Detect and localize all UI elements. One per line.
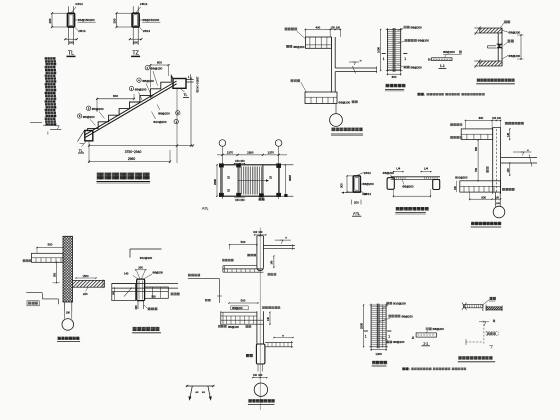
stair plan - right dim 2960 <box>285 164 292 197</box>
retaining wall - right label (CJK) <box>502 188 505 191</box>
expansion joint - right slab bar dark <box>486 306 502 312</box>
section 1-1 lower - label <box>426 327 445 333</box>
stair plan - axis bubble right <box>275 140 282 199</box>
platform beam section - bottom width dim arrow 200 <box>341 192 367 196</box>
tall wall M - right vdim 140 upper <box>272 255 275 268</box>
retaining wall - wall lines <box>493 128 501 194</box>
stair section - bottom dim 3750-2940 <box>88 89 194 164</box>
beam section TZ <box>113 2 161 57</box>
stair plan - bottom center label <box>259 198 262 201</box>
svg-text:2Φ14: 2Φ14 <box>78 29 86 33</box>
section 1-1 lower - caption <box>422 342 430 346</box>
platform beam elevation - L/4 dims <box>393 167 432 173</box>
svg-text:200: 200 <box>138 265 143 269</box>
platform beam section - left dim 300 <box>340 175 354 193</box>
svg-text:60°: 60° <box>196 392 199 394</box>
retaining wall - rotated label (CJK vertical) <box>486 167 489 173</box>
storage wall K - floor step lines <box>26 293 58 305</box>
bracket detail - caption (CJK) <box>331 128 363 136</box>
svg-text:200: 200 <box>48 18 52 23</box>
platform beam elevation - bottom rebar label phi8@200 <box>402 179 414 188</box>
lower mesh N - label top (CJK + phi10@200) <box>382 302 407 309</box>
column footing L - column <box>137 279 145 301</box>
svg-text:3750~2940: 3750~2940 <box>125 150 142 154</box>
storage wall K - right slab hatched <box>73 279 105 288</box>
retaining wall - detail bubble <box>493 206 505 218</box>
tall wall M - lower wall <box>257 311 264 344</box>
svg-text:700: 700 <box>475 167 478 172</box>
column footing L - caption (CJK) <box>132 327 161 333</box>
svg-text:100: 100 <box>253 374 258 377</box>
svg-text:Φ10@200: Φ10@200 <box>393 302 406 306</box>
platform beam elevation - beam lines <box>391 177 440 180</box>
svg-text:2960: 2960 <box>213 179 217 185</box>
tall wall M - dark label left (CJK) <box>246 354 249 357</box>
svg-text:Φ14: Φ14 <box>142 2 148 6</box>
retaining wall - bottom footing <box>460 181 501 192</box>
platform beam - title (CJK) <box>395 207 428 214</box>
stair section - bottom dim 2960 <box>88 150 171 163</box>
svg-text:500: 500 <box>241 240 246 244</box>
bracket detail - top dim 400/100/100 <box>305 26 341 37</box>
tall wall M - upper right slab <box>263 244 295 250</box>
tall wall M - right label (CJK) <box>268 273 271 276</box>
tall wall M - small label left of wall (CJK) <box>247 254 250 257</box>
stair plan - top dim line 1370 2360 1370 <box>217 151 287 156</box>
expansion joint - left slab bar <box>464 305 483 308</box>
svg-text:600: 600 <box>392 75 397 79</box>
retaining wall - right dims 140 <box>507 128 511 176</box>
lower mesh N - left dim 2500 <box>360 304 365 347</box>
svg-text:500: 500 <box>475 146 478 151</box>
tall wall M - mid step label (CJK) <box>188 274 191 277</box>
stair section - rebar callout phi8@200 left 5 <box>86 106 104 118</box>
expansion joint - joint step <box>483 305 486 311</box>
svg-text:2960: 2960 <box>288 175 292 181</box>
retaining wall - slab level mark <box>513 150 532 155</box>
svg-text:Φ8@200: Φ8@200 <box>508 31 520 35</box>
svg-text:2960: 2960 <box>128 157 136 161</box>
bracket detail - detail bubble <box>330 114 343 127</box>
svg-text:2Φ14: 2Φ14 <box>143 29 151 33</box>
svg-text:Φ8@200: Φ8@200 <box>228 325 239 329</box>
svg-text:1370: 1370 <box>268 151 275 155</box>
hanging rebar - left leg with arrow <box>188 386 192 401</box>
svg-text:500: 500 <box>48 243 53 247</box>
svg-text:100: 100 <box>253 231 258 234</box>
stair section - rebar callout 4 phi8@200 mid <box>129 86 146 100</box>
storage wall K - detail bubble <box>62 319 74 331</box>
svg-text:Φ6@200: Φ6@200 <box>362 182 374 186</box>
svg-text:Φ8@200: Φ8@200 <box>293 45 305 49</box>
expansion joint - dashed centerline <box>483 321 485 345</box>
svg-text:200: 200 <box>135 305 138 310</box>
retaining wall - top dim 600/100/100 <box>465 116 502 129</box>
lower mesh N - section mark 1 left <box>364 331 368 338</box>
tall wall M - boxed label phi8@200 <box>231 306 248 310</box>
tall wall M - ledge label (CJK) <box>222 259 225 262</box>
tall wall M - second ledge <box>221 311 264 325</box>
svg-text:Φ8@200: Φ8@200 <box>232 306 243 310</box>
tall wall M - top dim 100/100 <box>253 231 266 236</box>
svg-text:1: 1 <box>365 334 367 338</box>
svg-text:200: 200 <box>69 41 74 45</box>
hanging rebar - right leg with arrow <box>208 386 212 401</box>
column footing L - left block with break <box>112 284 136 301</box>
svg-text:Φ8@200: Φ8@200 <box>135 87 147 91</box>
connection detail - right dim bracket <box>517 34 524 59</box>
expansion joint - level triangle <box>479 322 489 326</box>
column footing L - top bent bar <box>130 249 162 258</box>
svg-text:600: 600 <box>479 116 484 120</box>
svg-text:Φ8@200: Φ8@200 <box>92 107 104 111</box>
svg-text:60°: 60° <box>202 392 205 394</box>
tall wall M - second ledge label (CJK + phi8@200) <box>218 325 251 329</box>
svg-text:1: 1 <box>383 57 385 61</box>
lower mesh N - caption (CJK) <box>372 361 387 366</box>
platform beam elevation - right support column <box>433 180 440 190</box>
svg-text:Φ6@150/200: Φ6@150/200 <box>142 18 159 22</box>
retaining wall - waterproof label (CJK) <box>505 122 508 125</box>
svg-text:100: 100 <box>258 231 263 234</box>
storage wall K - top dim 500 <box>36 243 63 254</box>
stair plan - treads <box>240 167 261 195</box>
bracket detail - slab level mark <box>349 60 362 65</box>
tall wall M - upper level mark <box>275 237 291 243</box>
beam section TL <box>48 2 96 57</box>
tall wall M - lower slab dim <box>273 336 293 339</box>
svg-text:600: 600 <box>481 195 486 199</box>
svg-text:Φ8@200: Φ8@200 <box>383 171 395 175</box>
column footing L - bottom leader label (CJK) <box>144 305 157 310</box>
lower mesh N - label mid (CJK + phi8@200) <box>380 314 414 321</box>
platform beam elevation - top rebar label phi8@200 <box>383 171 395 177</box>
bottom note line (CJK) <box>402 367 466 371</box>
connection detail - label coping (CJK) <box>501 20 511 27</box>
footing mesh - label bottom phi8@200 (CJK lead) <box>398 65 423 70</box>
stair plan - axis bubble left <box>219 140 226 199</box>
platform beam section P.TL <box>353 171 374 196</box>
svg-text:Φ6@200: Φ6@200 <box>338 100 350 104</box>
platform beam elevation - bottom dim line <box>393 190 431 198</box>
column footing L - right block <box>145 287 169 299</box>
stair section - top TL label <box>180 88 189 97</box>
storage wall K - caption (CJK) <box>57 337 80 342</box>
svg-text:Φ8@200: Φ8@200 <box>418 39 430 43</box>
svg-text:TL: TL <box>184 93 188 97</box>
column footing L - bottom stem and dim 200 <box>135 301 143 310</box>
connection detail - caption (CJK) <box>476 79 515 84</box>
tall wall M - bottom stem dim <box>252 364 267 378</box>
svg-text:1-1: 1-1 <box>440 64 445 68</box>
svg-text:140: 140 <box>507 132 510 137</box>
svg-text:1: 1 <box>388 334 390 338</box>
stair section - right vertical dim 1830-1415 <box>190 77 200 147</box>
svg-text:2Φ14: 2Φ14 <box>364 171 371 175</box>
footing mesh elevation - horizontal bars <box>387 31 400 69</box>
connection detail - wall lines <box>498 28 502 66</box>
column footing L - dim 200 <box>135 265 146 270</box>
retaining wall - left dim 100 <box>455 181 457 192</box>
svg-text:1-1: 1-1 <box>423 342 428 346</box>
expansion joint - small mark <box>489 345 492 348</box>
stair section - top dim 600 <box>149 60 169 87</box>
tall wall M - caption (CJK) <box>248 399 275 404</box>
svg-text:Φ8@200: Φ8@200 <box>410 65 422 69</box>
tall wall M - mid step polyline <box>188 279 222 303</box>
svg-text:Φ8@200: Φ8@200 <box>401 314 413 318</box>
svg-text:200: 200 <box>362 192 367 196</box>
column footing L - right label (CJK) <box>171 293 174 296</box>
lower mesh N - vertical bars <box>377 304 383 349</box>
expansion joint - dashed box label (CJK) <box>486 331 498 335</box>
footing mesh - caption (CJK) <box>385 84 405 91</box>
storage wall K - boxed label (CJK) <box>27 301 39 306</box>
platform beam elevation - left support column <box>387 178 394 190</box>
svg-text:Φ8@200: Φ8@200 <box>508 54 520 58</box>
footing mesh elevation - left dim 1000 <box>377 29 382 71</box>
stair plan - left dim 2960 <box>213 164 218 197</box>
column footing L - leaders to column top <box>133 271 152 280</box>
stair section - steps profile <box>87 76 173 131</box>
connection detail - bottom footing bar <box>474 59 502 68</box>
svg-text:L/4: L/4 <box>424 167 428 171</box>
footing mesh elevation - center vertical bars <box>393 28 395 72</box>
svg-text:Φ8@200: Φ8@200 <box>393 340 405 344</box>
stair section - rebar callout 4 phi8@200 upper <box>137 78 154 94</box>
svg-text:≥50: ≥50 <box>83 292 88 296</box>
svg-text:P.TL: P.TL <box>202 207 208 211</box>
stair section - lower TL label <box>78 141 87 153</box>
connection detail - top coping bar <box>474 26 502 35</box>
svg-text:500: 500 <box>241 298 246 302</box>
bracket detail - left label 3 (CJK) <box>291 79 307 92</box>
svg-text:Φ8@200: Φ8@200 <box>158 111 170 115</box>
storage wall K - slab dim 1500 <box>75 274 96 279</box>
storage wall K - >=50 note <box>83 287 88 296</box>
hanging rebar - angle texts <box>196 392 206 394</box>
stair section - top landing beam TL <box>173 74 194 88</box>
svg-text:Φ6@150/200: Φ6@150/200 <box>78 18 95 22</box>
lower mesh N - section mark 1 right <box>387 331 391 338</box>
tall wall M - right label expansion (CJK) <box>262 306 280 309</box>
tall wall M - dim 500 upper <box>229 240 258 250</box>
tall wall M - dim 500 lower <box>228 298 258 303</box>
bracket detail - left label 1 (CJK) <box>285 28 306 39</box>
svg-text:600: 600 <box>113 94 118 98</box>
svg-text:Φ8@200: Φ8@200 <box>410 25 422 29</box>
svg-text:Φ8@200: Φ8@200 <box>433 327 445 331</box>
svg-text:100: 100 <box>331 27 336 30</box>
connection detail - label tie (CJK) <box>504 40 514 46</box>
connection detail - label phi8@200 upper <box>502 30 520 34</box>
svg-text:Φ14: Φ14 <box>77 2 83 6</box>
hanging rebar - top bar <box>186 385 214 387</box>
storage wall K - ledge label (CJK) <box>23 259 26 262</box>
svg-text:1830(~1415): 1830(~1415) <box>196 77 200 93</box>
svg-text:TL: TL <box>79 149 83 153</box>
note line top right (CJK) <box>418 93 485 97</box>
lower mesh N - label bottom (CJK + phi8@200) <box>382 338 405 345</box>
retaining wall - stem to bubble <box>496 192 501 206</box>
footing mesh elevation - section mark 1 left <box>382 54 386 62</box>
svg-text:200: 200 <box>354 201 359 205</box>
tall wall M - right vdim 140 mid <box>268 312 271 325</box>
tall wall M - centerline <box>259 228 261 411</box>
stair plan - flight direction line <box>238 179 269 182</box>
expansion joint - leader and label <box>482 297 496 306</box>
svg-text:Φ8@150: Φ8@150 <box>151 67 163 71</box>
bracket detail - wall <box>331 37 335 92</box>
svg-text:300: 300 <box>54 272 57 277</box>
tall wall M - small left text (CJK) <box>205 299 208 302</box>
storage wall K - hatched wall <box>63 236 73 302</box>
lower mesh N - horizontal bars <box>371 307 386 345</box>
stair section - rebar callout 2 phi8@150 <box>145 66 163 86</box>
svg-text:150: 150 <box>240 198 245 202</box>
retaining wall - bottom dim 600/100 <box>469 192 501 200</box>
bracket detail - stem to bubble <box>335 104 337 114</box>
svg-text:1: 1 <box>404 57 406 61</box>
storage wall K - vertical dim 300 <box>53 262 61 284</box>
connection detail - tie bar bowtie <box>488 44 504 48</box>
footing mesh - bottom dim 600 <box>387 72 402 80</box>
section 1-1 lower - slab bar <box>413 333 436 339</box>
section 1-1 upper - slab bar <box>428 58 452 62</box>
platform beam section - bottom dim 200 <box>352 200 361 205</box>
svg-text:200: 200 <box>133 41 138 45</box>
tall wall M - upper wall <box>257 236 264 271</box>
connection detail - label phi8@200 lower <box>502 54 520 59</box>
svg-text:1500: 1500 <box>83 274 89 278</box>
tall wall M - upper ledge <box>223 266 264 273</box>
platform beam section - P.TL label <box>352 212 361 216</box>
storage wall K - left ledge <box>32 253 64 262</box>
svg-text:1300: 1300 <box>375 352 382 356</box>
lower mesh N - outline <box>370 304 388 348</box>
retaining wall - right slab <box>501 155 537 167</box>
stair plan - sub dim 150 150 top <box>234 159 245 164</box>
expansion joint - caption (CJK) <box>458 356 495 362</box>
stair section - rebar callout phi8@200 right 3 <box>157 105 180 116</box>
stair plan - outer walls <box>221 165 294 196</box>
retaining wall - caption (CJK) <box>471 222 502 227</box>
stair plan - column blobs <box>219 163 288 197</box>
bracket detail - left label 2 phi8@200 <box>286 45 305 49</box>
svg-text:400: 400 <box>315 26 320 30</box>
svg-text:200: 200 <box>113 18 117 23</box>
svg-text:500: 500 <box>152 296 157 299</box>
expansion joint - dashed floor line <box>466 339 483 345</box>
bracket detail - top ledge <box>305 37 331 48</box>
svg-text:Φ8@200: Φ8@200 <box>152 270 163 274</box>
stair section - rebar callout phi10@200 right 1 <box>152 112 179 125</box>
tall wall M - lower right slab <box>265 341 293 348</box>
retaining wall - inner left dim 500/700 <box>475 140 479 182</box>
stair section - inclined slab <box>85 81 176 137</box>
stair section - lower landing beam TL <box>77 130 92 144</box>
svg-text:300: 300 <box>340 183 344 188</box>
expansion joint - left end cross <box>462 303 467 311</box>
svg-text:Φ8@200: Φ8@200 <box>83 115 95 119</box>
storage wall K - stem below wall <box>65 302 72 319</box>
stair plan - bottom dim 150 150 <box>234 198 245 202</box>
bracket detail - bottom ledge <box>305 92 337 104</box>
bracket detail - bottom label phi6@200 <box>338 100 357 104</box>
svg-text:140: 140 <box>507 168 510 173</box>
footing mesh elevation - section mark 1 right <box>403 54 407 62</box>
lower mesh N - bottom dim 1300 <box>371 348 387 356</box>
svg-text:L/4: L/4 <box>396 167 400 171</box>
svg-text:Φ10@200: Φ10@200 <box>153 120 167 124</box>
svg-text:2500: 2500 <box>360 323 364 329</box>
tall wall M - detail bubble <box>254 383 267 396</box>
svg-text:2360: 2360 <box>247 151 254 155</box>
svg-text:150: 150 <box>240 159 245 163</box>
svg-text:P.TL: P.TL <box>353 212 360 216</box>
footing mesh - label mid (CJK) phi8@200 <box>397 39 430 44</box>
svg-text:600: 600 <box>157 60 162 64</box>
stair section - rebar callout phi8@200 left 6 <box>77 114 95 126</box>
section 1-1 upper - label phi8@200 <box>443 50 462 58</box>
retaining wall - top ledge <box>461 129 493 140</box>
datum line left of notes <box>30 121 42 123</box>
footing mesh elevation - outline <box>386 28 403 71</box>
svg-text:Φ8@200: Φ8@200 <box>443 50 455 54</box>
column footing L - beam lines <box>112 284 178 292</box>
svg-text:100: 100 <box>258 374 263 377</box>
svg-text:1000: 1000 <box>377 47 381 53</box>
svg-text:100: 100 <box>336 27 341 30</box>
section 1-1 upper - caption <box>439 64 447 68</box>
svg-text:Φ10@200: Φ10@200 <box>455 175 468 179</box>
general notes text column <box>43 57 56 126</box>
retaining wall - left labels (CJK) <box>450 123 462 139</box>
svg-text:Φ10@200: Φ10@200 <box>140 256 153 260</box>
stair section - title (CJK) <box>97 173 151 183</box>
tall wall M - lower wall column <box>256 344 265 364</box>
bracket detail - right slab <box>335 66 377 74</box>
footing mesh - label top phi8@200 (CJK lead) <box>398 25 423 31</box>
svg-text:140: 140 <box>124 271 129 275</box>
svg-text::: : <box>424 93 425 97</box>
stair section - mid dim 600 <box>96 94 135 112</box>
svg-text:Φ8@200: Φ8@200 <box>142 79 154 83</box>
svg-text:1370: 1370 <box>227 151 234 155</box>
svg-text:Φ8@200: Φ8@200 <box>402 185 414 189</box>
ground level mark under notes <box>48 126 62 135</box>
